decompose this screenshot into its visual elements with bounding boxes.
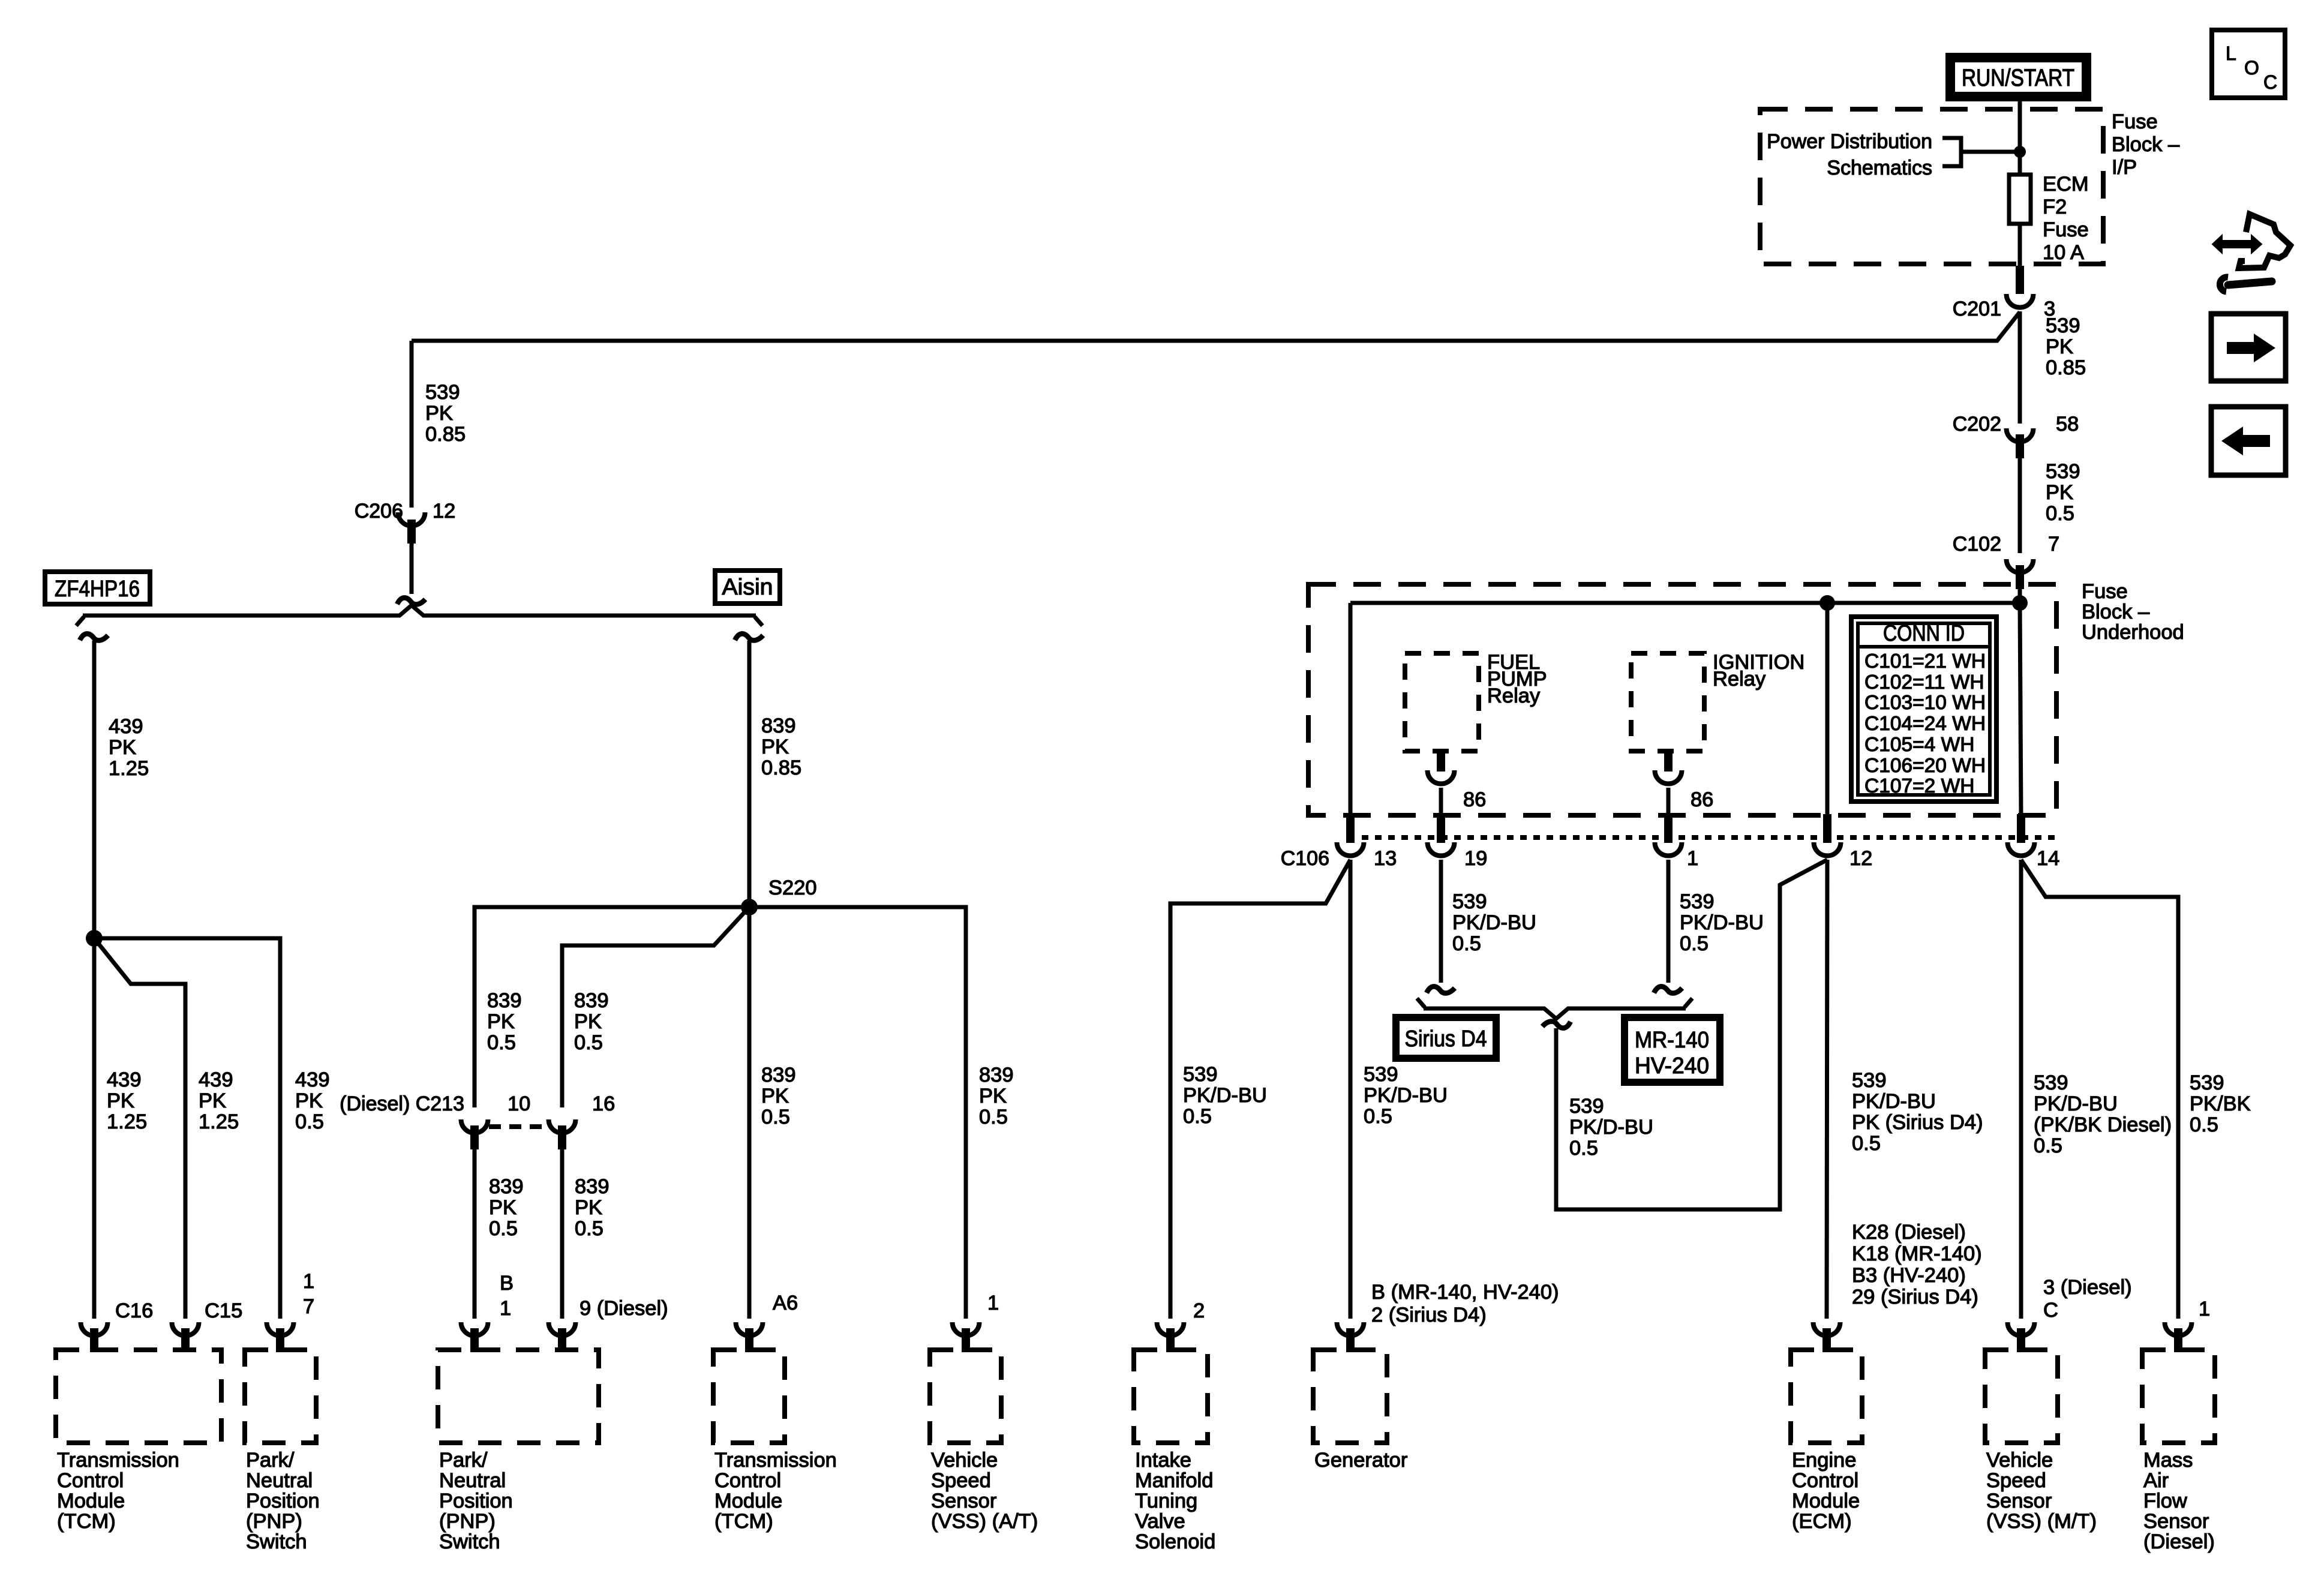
svg-text:Aisin: Aisin — [722, 575, 773, 600]
svg-text:Underhood: Underhood — [2082, 621, 2184, 644]
svg-text:CONN ID: CONN ID — [1883, 621, 1965, 646]
svg-text:0.5: 0.5 — [1680, 932, 1709, 955]
svg-text:839: 839 — [487, 989, 522, 1012]
svg-text:539: 539 — [2034, 1071, 2068, 1094]
svg-text:839: 839 — [761, 715, 796, 737]
svg-text:PK/D-BU: PK/D-BU — [1680, 911, 1764, 934]
svg-text:B: B — [500, 1272, 514, 1295]
svg-text:3 (Diesel): 3 (Diesel) — [2043, 1276, 2132, 1299]
svg-text:(PNP): (PNP) — [439, 1510, 496, 1533]
svg-text:Control: Control — [1792, 1469, 1858, 1492]
svg-text:539: 539 — [1364, 1063, 1398, 1086]
svg-text:1: 1 — [987, 1292, 999, 1314]
svg-text:1: 1 — [1687, 847, 1698, 870]
svg-text:C106=20 WH: C106=20 WH — [1864, 755, 1986, 777]
svg-text:2: 2 — [1193, 1299, 1205, 1322]
svg-text:PK: PK — [2046, 481, 2073, 504]
svg-text:539: 539 — [1680, 890, 1715, 913]
svg-text:13: 13 — [1374, 847, 1397, 870]
svg-text:PK/D-BU: PK/D-BU — [1452, 911, 1536, 934]
svg-text:Sensor: Sensor — [1986, 1490, 2052, 1512]
svg-text:PK/D-BU: PK/D-BU — [1852, 1090, 1936, 1113]
svg-text:C101=21 WH: C101=21 WH — [1864, 650, 1986, 673]
svg-text:Flow: Flow — [2143, 1490, 2187, 1512]
svg-text:C206: C206 — [355, 500, 403, 523]
svg-text:0.5: 0.5 — [1364, 1105, 1392, 1128]
svg-text:Speed: Speed — [931, 1469, 991, 1492]
svg-text:7: 7 — [303, 1295, 314, 1318]
svg-text:0.5: 0.5 — [2046, 502, 2074, 525]
svg-text:B (MR-140, HV-240): B (MR-140, HV-240) — [1371, 1281, 1559, 1304]
svg-text:S220: S220 — [768, 876, 817, 899]
svg-text:86: 86 — [1463, 788, 1486, 811]
svg-text:1: 1 — [2199, 1298, 2210, 1320]
svg-text:C15: C15 — [205, 1299, 242, 1322]
svg-text:Relay: Relay — [1713, 668, 1766, 691]
svg-text:L: L — [2226, 43, 2236, 64]
svg-text:Fuse: Fuse — [2043, 218, 2089, 241]
svg-text:Block –: Block – — [2112, 133, 2180, 156]
svg-text:Module: Module — [57, 1490, 125, 1512]
svg-text:539: 539 — [425, 381, 460, 404]
svg-text:0.5: 0.5 — [574, 1031, 603, 1054]
svg-text:Module: Module — [1792, 1490, 1860, 1512]
svg-text:Air: Air — [2143, 1469, 2169, 1492]
svg-text:Sensor: Sensor — [931, 1490, 996, 1512]
svg-text:PK: PK — [487, 1010, 515, 1033]
svg-text:Sensor: Sensor — [2143, 1510, 2209, 1533]
svg-text:(Diesel): (Diesel) — [2143, 1530, 2215, 1553]
svg-text:Valve: Valve — [1135, 1510, 1185, 1533]
svg-text:0.5: 0.5 — [2190, 1113, 2218, 1136]
svg-text:12: 12 — [1849, 847, 1872, 870]
svg-text:(VSS) (M/T): (VSS) (M/T) — [1986, 1510, 2097, 1533]
svg-text:10: 10 — [508, 1092, 530, 1115]
svg-text:Position: Position — [439, 1490, 513, 1512]
svg-text:PK: PK — [761, 1085, 789, 1107]
svg-text:Solenoid: Solenoid — [1135, 1530, 1215, 1553]
svg-text:(PNP): (PNP) — [246, 1510, 302, 1533]
svg-text:539: 539 — [2190, 1071, 2224, 1094]
svg-text:PK: PK — [979, 1085, 1007, 1107]
svg-text:PK: PK — [199, 1089, 226, 1112]
svg-text:0.5: 0.5 — [575, 1217, 603, 1240]
svg-text:C107=2 WH: C107=2 WH — [1864, 775, 1974, 797]
svg-text:0.5: 0.5 — [1569, 1137, 1598, 1160]
svg-text:PK/BK: PK/BK — [2190, 1092, 2251, 1115]
svg-text:PK: PK — [489, 1196, 517, 1219]
svg-text:58: 58 — [2056, 413, 2079, 436]
svg-text:PK: PK — [2046, 335, 2073, 358]
svg-text:PK: PK — [109, 736, 136, 759]
svg-text:Vehicle: Vehicle — [1986, 1449, 2053, 1472]
svg-text:O: O — [2244, 57, 2259, 79]
svg-text:Engine: Engine — [1792, 1449, 1856, 1472]
svg-text:839: 839 — [979, 1064, 1014, 1086]
svg-text:Transmission: Transmission — [714, 1449, 837, 1472]
svg-text:0.5: 0.5 — [1183, 1105, 1212, 1128]
svg-text:Vehicle: Vehicle — [931, 1449, 998, 1472]
svg-text:12: 12 — [433, 500, 455, 523]
svg-text:1: 1 — [500, 1297, 511, 1320]
svg-text:Mass: Mass — [2143, 1449, 2193, 1472]
svg-text:C: C — [2043, 1299, 2058, 1322]
svg-text:839: 839 — [575, 1175, 609, 1198]
svg-text:0.85: 0.85 — [425, 423, 466, 446]
svg-text:Control: Control — [57, 1469, 124, 1492]
svg-text:1.25: 1.25 — [199, 1110, 239, 1133]
svg-text:Park/: Park/ — [439, 1449, 488, 1472]
svg-text:10 A: 10 A — [2043, 241, 2084, 264]
svg-text:ZF4HP16: ZF4HP16 — [55, 577, 140, 602]
svg-text:Park/: Park/ — [246, 1449, 295, 1472]
svg-text:1.25: 1.25 — [107, 1110, 147, 1133]
svg-text:0.5: 0.5 — [761, 1106, 790, 1128]
svg-text:(TCM): (TCM) — [714, 1510, 773, 1533]
svg-text:0.85: 0.85 — [2046, 356, 2086, 379]
svg-text:Position: Position — [246, 1490, 320, 1512]
svg-text:PK (Sirius D4): PK (Sirius D4) — [1852, 1111, 1983, 1134]
svg-text:29 (Sirius D4): 29 (Sirius D4) — [1852, 1286, 1978, 1308]
svg-text:0.5: 0.5 — [2034, 1134, 2062, 1157]
svg-text:F2: F2 — [2043, 196, 2067, 218]
svg-text:0.5: 0.5 — [295, 1110, 324, 1133]
svg-text:I/P: I/P — [2112, 156, 2137, 179]
svg-text:0.85: 0.85 — [761, 757, 801, 779]
svg-text:86: 86 — [1691, 788, 1713, 811]
svg-text:16: 16 — [592, 1092, 615, 1115]
svg-text:2 (Sirius D4): 2 (Sirius D4) — [1371, 1304, 1487, 1326]
svg-text:C103=10 WH: C103=10 WH — [1864, 692, 1986, 714]
svg-text:A6: A6 — [773, 1292, 798, 1314]
svg-text:1.25: 1.25 — [109, 757, 149, 780]
svg-text:9 (Diesel): 9 (Diesel) — [580, 1297, 668, 1320]
svg-text:439: 439 — [107, 1068, 142, 1091]
svg-text:Speed: Speed — [1986, 1469, 2046, 1492]
svg-text:(Diesel) C213: (Diesel) C213 — [340, 1092, 464, 1115]
svg-text:HV-240: HV-240 — [1635, 1053, 1709, 1079]
svg-text:PK: PK — [574, 1010, 602, 1033]
svg-text:0.5: 0.5 — [1852, 1132, 1881, 1155]
svg-text:C202: C202 — [1953, 413, 2001, 436]
svg-text:439: 439 — [295, 1068, 330, 1091]
svg-text:0.5: 0.5 — [1452, 932, 1481, 955]
svg-text:C102=11 WH: C102=11 WH — [1864, 671, 1984, 694]
svg-text:B3 (HV-240): B3 (HV-240) — [1852, 1264, 1966, 1287]
svg-text:PK: PK — [295, 1089, 323, 1112]
svg-text:PK/D-BU: PK/D-BU — [2034, 1092, 2118, 1115]
svg-text:C104=24 WH: C104=24 WH — [1864, 713, 1986, 735]
svg-text:C16: C16 — [115, 1299, 153, 1322]
svg-text:Intake: Intake — [1135, 1449, 1191, 1472]
svg-text:0.5: 0.5 — [489, 1217, 518, 1240]
svg-text:Control: Control — [714, 1469, 781, 1492]
svg-text:RUN/START: RUN/START — [1962, 65, 2074, 91]
svg-text:Fuse: Fuse — [2112, 110, 2158, 133]
svg-text:1: 1 — [303, 1270, 314, 1293]
svg-text:Module: Module — [714, 1490, 782, 1512]
svg-text:439: 439 — [109, 715, 143, 738]
svg-text:14: 14 — [2037, 847, 2059, 870]
svg-text:Switch: Switch — [439, 1530, 500, 1553]
svg-text:PK/D-BU: PK/D-BU — [1364, 1084, 1448, 1107]
svg-text:839: 839 — [489, 1175, 524, 1198]
svg-text:Generator: Generator — [1314, 1449, 1407, 1472]
svg-text:Block –: Block – — [2082, 601, 2150, 623]
svg-text:ECM: ECM — [2043, 173, 2089, 196]
svg-text:C201: C201 — [1953, 298, 2001, 320]
svg-text:539: 539 — [1452, 890, 1487, 913]
svg-text:Fuse: Fuse — [2082, 580, 2128, 603]
svg-text:PK: PK — [107, 1089, 134, 1112]
svg-text:C106: C106 — [1281, 847, 1329, 870]
svg-text:839: 839 — [574, 989, 609, 1012]
svg-text:0.5: 0.5 — [487, 1031, 516, 1054]
svg-text:K28 (Diesel): K28 (Diesel) — [1852, 1221, 1966, 1244]
svg-text:C: C — [2263, 71, 2277, 93]
svg-text:(ECM): (ECM) — [1792, 1510, 1852, 1533]
svg-text:MR-140: MR-140 — [1635, 1028, 1709, 1053]
svg-text:(PK/BK Diesel): (PK/BK Diesel) — [2034, 1113, 2172, 1136]
svg-text:PK: PK — [575, 1196, 602, 1219]
svg-text:539: 539 — [1569, 1095, 1604, 1118]
svg-text:Sirius D4: Sirius D4 — [1405, 1026, 1487, 1052]
svg-text:(TCM): (TCM) — [57, 1510, 116, 1533]
svg-text:Neutral: Neutral — [246, 1469, 313, 1492]
svg-text:Schematics: Schematics — [1827, 157, 1932, 179]
svg-text:PK: PK — [425, 402, 453, 425]
svg-text:Power Distribution: Power Distribution — [1767, 130, 1932, 153]
svg-text:Neutral: Neutral — [439, 1469, 506, 1492]
svg-text:539: 539 — [2046, 460, 2080, 483]
svg-text:0.5: 0.5 — [979, 1106, 1008, 1128]
svg-text:PK: PK — [761, 736, 789, 758]
svg-text:K18 (MR-140): K18 (MR-140) — [1852, 1242, 1982, 1265]
svg-text:Manifold: Manifold — [1135, 1469, 1213, 1492]
svg-text:Relay: Relay — [1487, 685, 1541, 707]
svg-text:7: 7 — [2048, 533, 2059, 556]
svg-text:(VSS) (A/T): (VSS) (A/T) — [931, 1510, 1038, 1533]
svg-text:439: 439 — [199, 1068, 233, 1091]
svg-text:539: 539 — [2046, 314, 2080, 337]
svg-text:Transmission: Transmission — [57, 1449, 179, 1472]
svg-text:PK/D-BU: PK/D-BU — [1183, 1084, 1267, 1107]
svg-text:Switch: Switch — [246, 1530, 307, 1553]
svg-text:Tuning: Tuning — [1135, 1490, 1197, 1512]
svg-text:PK/D-BU: PK/D-BU — [1569, 1116, 1653, 1139]
svg-text:19: 19 — [1464, 847, 1487, 870]
svg-text:C105=4 WH: C105=4 WH — [1864, 734, 1974, 756]
svg-text:839: 839 — [761, 1064, 796, 1086]
svg-text:539: 539 — [1183, 1063, 1218, 1086]
svg-text:C102: C102 — [1953, 533, 2001, 556]
svg-text:539: 539 — [1852, 1069, 1887, 1092]
